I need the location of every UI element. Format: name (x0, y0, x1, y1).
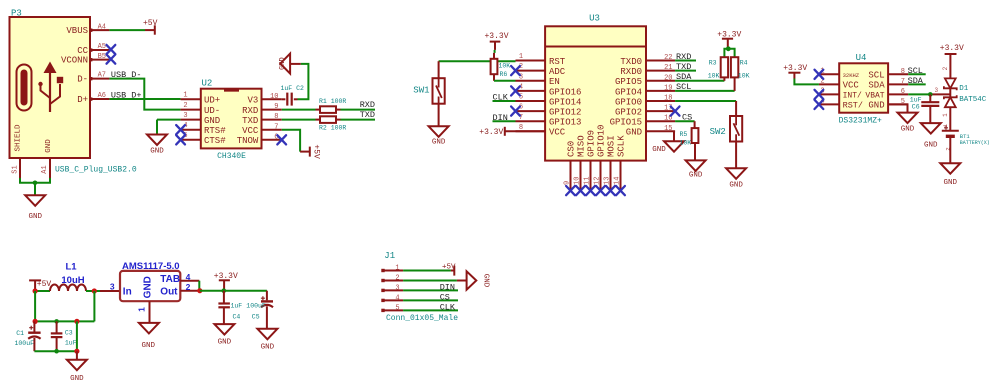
svg-text:22: 22 (664, 54, 672, 62)
svg-text:CS: CS (682, 112, 692, 122)
svg-text:GND: GND (689, 171, 703, 179)
svg-text:RXD: RXD (242, 106, 258, 116)
resistor R4 10K (731, 57, 750, 91)
J1 pin 4 (381, 295, 403, 303)
power +5V (VBUS, rotated) (143, 19, 158, 35)
U4 pin 8 SCL (868, 68, 908, 81)
svg-text:+3.3V: +3.3V (479, 128, 503, 137)
U3 pin 21 RXD0 (620, 64, 675, 77)
wire SCL (U4) (908, 73, 926, 75)
svg-text:GPIO4: GPIO4 (615, 87, 642, 97)
svg-text:GPIO5: GPIO5 (615, 77, 642, 87)
wire U2 GND pin (157, 120, 181, 135)
svg-text:C5: C5 (252, 313, 260, 320)
no-connect X on RTS# (176, 125, 185, 134)
svg-text:BATTERY(X): BATTERY(X) (960, 140, 990, 146)
wire SW2 to ground (735, 142, 737, 169)
wire CS (pin16) (675, 120, 695, 122)
U4 pin 5 GND (868, 98, 908, 111)
ground (P3) (25, 195, 45, 206)
svg-text:4: 4 (395, 295, 399, 303)
power +5V (U2 VCC, rotated) (300, 144, 321, 159)
svg-text:Out: Out (160, 286, 178, 297)
svg-text:TXD0: TXD0 (620, 57, 642, 67)
no-connect X on GPIO2 (671, 107, 680, 116)
no-connect X on VCONN (107, 55, 116, 64)
J1 pin 3 (381, 285, 403, 293)
P3 pin SHIELD S1 (12, 124, 23, 178)
svg-text:1: 1 (136, 307, 146, 312)
U4 pin 6 VBAT (865, 88, 908, 101)
wire VCC to +5V (282, 130, 300, 152)
wire rail to ground (76, 351, 78, 360)
U4 pin 4 RST/ (819, 98, 863, 111)
svg-text:GND: GND (279, 57, 287, 70)
svg-text:GND: GND (261, 344, 275, 352)
U2 pin 9 RXD (242, 103, 282, 116)
svg-text:VBUS: VBUS (66, 26, 88, 36)
svg-text:BAT54C: BAT54C (959, 96, 987, 104)
wire R6 to U3 EN (494, 74, 516, 81)
svg-text:SCL: SCL (868, 71, 884, 81)
wire down to cap rail (34, 291, 36, 321)
wire J1 pin1 to +5V (403, 270, 451, 272)
wire SCL (pin19) (675, 90, 735, 92)
diode D1 BAT54C (944, 78, 987, 107)
U4 pin 1 32KHZ (819, 67, 860, 79)
svg-text:GND: GND (901, 126, 915, 134)
svg-text:GND: GND (652, 146, 666, 154)
svg-text:GPIO10: GPIO10 (597, 125, 607, 157)
svg-text:6: 6 (901, 88, 905, 96)
no-connect X on SCLK (616, 186, 625, 195)
svg-text:1uF: 1uF (65, 340, 77, 347)
svg-text:CS0: CS0 (567, 141, 577, 157)
svg-text:2: 2 (942, 66, 949, 70)
IC U2 CH340E (201, 79, 262, 161)
svg-text:CLK: CLK (440, 302, 456, 312)
svg-text:RST: RST (549, 57, 566, 67)
svg-text:SHIELD: SHIELD (15, 124, 23, 152)
U2 pin 7 VCC (242, 123, 282, 136)
svg-text:+3.3V: +3.3V (783, 64, 807, 73)
switch SW1 (413, 61, 444, 103)
svg-text:RXD0: RXD0 (620, 67, 642, 77)
power +3.3V (regulator out) (214, 272, 238, 291)
svg-text:Conn_01x05_Male: Conn_01x05_Male (386, 314, 458, 323)
no-connect X on CS0 (566, 186, 575, 195)
P3 pin D+ A6 (77, 92, 109, 105)
svg-text:A6: A6 (98, 92, 106, 100)
svg-text:GPIO13: GPIO13 (549, 118, 581, 128)
svg-text:2: 2 (183, 102, 187, 110)
svg-text:RTS#: RTS# (204, 126, 226, 136)
svg-text:1: 1 (395, 265, 399, 273)
svg-text:1uF C2: 1uF C2 (281, 85, 305, 92)
wire L1 to regulator In (86, 290, 120, 292)
svg-text:RST/: RST/ (843, 101, 863, 111)
ground (J1, rotated) (457, 271, 489, 289)
wire R3/R4 tops (724, 49, 734, 57)
junction (726, 46, 731, 51)
wire down to cap rail (right) (93, 291, 95, 321)
svg-text:D-: D- (77, 75, 88, 85)
svg-text:GND: GND (70, 375, 84, 383)
wire SW1 to ground (438, 104, 440, 127)
svg-text:+3.3V: +3.3V (940, 44, 964, 53)
wire J1 pin2 to GND (403, 280, 457, 282)
svg-text:MOSI: MOSI (607, 135, 617, 157)
USB-C receptacle icon (17, 65, 32, 111)
svg-text:GND: GND (150, 148, 164, 156)
svg-text:8: 8 (274, 113, 278, 121)
svg-text:32KHZ: 32KHZ (843, 72, 860, 79)
wire Out rail (200, 290, 267, 292)
svg-text:V3: V3 (247, 96, 258, 106)
svg-text:GPIO9: GPIO9 (587, 130, 597, 157)
ground (U3 pin15) (652, 141, 684, 154)
svg-text:GND: GND (204, 116, 220, 126)
svg-text:7: 7 (274, 123, 278, 131)
svg-text:VCC: VCC (843, 81, 860, 91)
svg-text:7: 7 (901, 78, 905, 86)
wire +5V to L1 (35, 290, 50, 292)
svg-text:GPIO0: GPIO0 (615, 97, 642, 107)
wire VBAT to D1 (908, 87, 950, 95)
wire R5 to ground (694, 143, 696, 160)
svg-text:+3.3V: +3.3V (484, 32, 508, 41)
wire SW1 to U3 RST (439, 60, 516, 62)
svg-text:SW2: SW2 (710, 127, 726, 137)
svg-text:GPIO16: GPIO16 (549, 87, 581, 97)
svg-text:11: 11 (583, 177, 591, 185)
svg-text:TNOW: TNOW (237, 136, 259, 146)
wire DIN (493, 120, 516, 122)
IC U4 DS3231MZ+ (839, 53, 889, 126)
svg-text:R4: R4 (740, 59, 748, 66)
regulator U? AMS1117-5.0 (120, 261, 180, 301)
svg-text:GND: GND (868, 101, 884, 111)
svg-text:GND: GND (481, 274, 489, 288)
svg-text:1: 1 (942, 123, 949, 127)
no-connect X on CC (107, 45, 116, 54)
U3 pin 5 GPIO14 (516, 94, 582, 108)
svg-text:10: 10 (270, 93, 278, 101)
svg-text:TAB: TAB (160, 274, 180, 285)
svg-text:CS: CS (440, 292, 450, 302)
no-connect X on MISO (576, 186, 585, 195)
svg-text:A1: A1 (41, 165, 49, 173)
svg-text:U4: U4 (856, 53, 867, 63)
svg-text:UD+: UD+ (204, 96, 220, 106)
svg-text:J1: J1 (384, 251, 395, 261)
svg-text:GND: GND (626, 128, 642, 138)
svg-text:3: 3 (183, 112, 187, 120)
svg-text:100uF: 100uF (15, 340, 35, 347)
battery BT1 (942, 123, 990, 151)
no-connect X on TNOW (277, 135, 286, 144)
power +3.3V (R3/R4) (717, 30, 741, 48)
cap rail top (34, 320, 94, 322)
svg-text:GND: GND (432, 139, 446, 147)
svg-text:GND: GND (142, 342, 156, 350)
capacitor C1 100uF (15, 321, 41, 351)
U2 pin 5 CTS# (181, 132, 227, 146)
U2 pin 3 GND (181, 112, 221, 126)
wire to R6 (494, 50, 496, 53)
svg-text:TXD: TXD (242, 116, 258, 126)
J1 pin 5 (381, 305, 403, 313)
svg-text:C6: C6 (912, 103, 920, 110)
svg-text:C4: C4 (233, 313, 241, 320)
wire RXD (pin22) (675, 60, 696, 62)
resistor R3 10K (708, 57, 728, 81)
svg-text:10uH: 10uH (61, 275, 84, 286)
U2 pin 10 V3 (247, 93, 281, 106)
svg-text:RXD: RXD (676, 52, 691, 62)
wire RXD (341, 109, 376, 111)
J1 pin 1 (381, 265, 403, 273)
inductor L1 10uH (50, 261, 86, 291)
wire GPIO0 to SW2 (675, 100, 736, 102)
power +3.3V (U4 VCC) (783, 64, 807, 79)
U3 pin 1 RST (516, 53, 566, 67)
junction (197, 288, 202, 293)
connector P3 (USB_C_Plug_USB2.0) (10, 9, 137, 175)
resistor R2 100R (282, 116, 347, 131)
svg-text:10K: 10K (499, 62, 511, 69)
U3 pin 10 MISO (bottom) (573, 135, 586, 190)
U3 pin 15 GND (626, 125, 675, 138)
svg-text:9: 9 (563, 181, 571, 185)
svg-text:SDA: SDA (676, 72, 692, 82)
svg-text:VCONN: VCONN (61, 56, 88, 66)
ground (R5) (686, 160, 706, 171)
U3 pin 8 VCC (516, 124, 566, 138)
junction (C6/VBAT) (928, 92, 933, 97)
svg-text:VBAT: VBAT (865, 92, 884, 101)
ground (BT1) (940, 163, 960, 174)
svg-text:1: 1 (519, 53, 523, 61)
svg-text:8: 8 (901, 68, 905, 76)
svg-text:100uF: 100uF (246, 303, 266, 310)
capacitor C6 1uF (910, 94, 940, 123)
U3 pin 7 GPIO13 (516, 114, 582, 128)
svg-text:12: 12 (593, 177, 601, 185)
svg-text:1: 1 (183, 92, 187, 100)
svg-text:+5V: +5V (442, 263, 456, 271)
AMS1117 pin 2 Out (180, 282, 199, 292)
svg-text:B5: B5 (98, 53, 106, 61)
svg-text:A5: A5 (98, 43, 106, 51)
wire C2 to gnd (298, 64, 309, 99)
wire +3.3V to U4 VCC (794, 79, 819, 85)
svg-text:S1: S1 (12, 165, 20, 173)
ground (C6) (921, 123, 941, 134)
power +5V (J1, rotated) (442, 263, 456, 275)
svg-text:1uF: 1uF (231, 303, 243, 310)
svg-text:USB_C_Plug_USB2.0: USB_C_Plug_USB2.0 (55, 166, 137, 175)
svg-text:20: 20 (664, 74, 672, 82)
svg-text:CC: CC (77, 46, 88, 56)
svg-text:3: 3 (935, 87, 939, 94)
USB trident icon (38, 62, 63, 113)
U2 pin 2 UD- (181, 102, 221, 116)
no-connect X on RST/ (815, 100, 824, 109)
svg-text:CTS#: CTS# (204, 136, 226, 146)
svg-text:ADC: ADC (549, 67, 566, 77)
no-connect X on MOSI (606, 186, 615, 195)
svg-text:14: 14 (613, 177, 621, 185)
ground (C4) (214, 324, 234, 335)
U3 pin 19 GPIO4 (615, 84, 675, 97)
ground (U2) (147, 135, 167, 146)
U3 pin 4 GPIO16 (516, 84, 582, 98)
svg-text:R5: R5 (680, 131, 688, 138)
U3 pin 14 SCLK (bottom) (613, 135, 626, 190)
U3 pin 2 ADC (516, 63, 566, 77)
svg-text:2: 2 (395, 275, 399, 283)
svg-text:A7: A7 (98, 71, 106, 79)
no-connect X on ADC (511, 66, 520, 75)
U4 pin 7 SDA (868, 78, 908, 91)
U3 pin 18 GPIO0 (615, 95, 675, 108)
svg-text:GPIO12: GPIO12 (549, 108, 581, 118)
ground (U4 pin5) (898, 113, 918, 124)
svg-text:GND: GND (218, 339, 232, 347)
svg-text:3: 3 (110, 281, 115, 291)
junction (92, 288, 97, 293)
svg-text:SW1: SW1 (413, 86, 429, 96)
svg-text:TXD: TXD (360, 110, 375, 120)
wire shield/gnd join (20, 178, 50, 183)
P3 pin CC A5 (77, 43, 109, 56)
wire TAB to Out (198, 281, 200, 291)
svg-text:GND: GND (924, 141, 938, 149)
svg-text:MISO: MISO (577, 135, 587, 157)
capacitor C3 1uF (51, 321, 77, 351)
svg-text:L1: L1 (65, 261, 77, 272)
AMS1117 pin 4 TAB (180, 272, 199, 282)
no-connect X on GPIO16 (511, 86, 520, 95)
svg-text:VCC: VCC (549, 128, 566, 138)
svg-text:10: 10 (573, 177, 581, 185)
svg-text:5: 5 (395, 305, 399, 313)
svg-text:UD-: UD- (204, 106, 220, 116)
svg-text:U2: U2 (202, 79, 213, 89)
svg-text:3: 3 (395, 285, 399, 293)
svg-text:GPIO2: GPIO2 (615, 108, 642, 118)
wire J1 pin4 (403, 299, 458, 301)
no-connect X on INT/ (815, 90, 824, 99)
svg-text:CH340E: CH340E (217, 152, 246, 161)
cap rail bottom (34, 350, 77, 352)
P3 pin VCONN B5 (61, 53, 109, 66)
U3 pin 16 GPIO15 (610, 115, 676, 128)
resistor R5 10K (680, 121, 699, 146)
svg-text:10K: 10K (708, 73, 720, 80)
wire SDA (pin20) (675, 80, 724, 82)
U3 pin 22 TXD0 (620, 54, 675, 67)
wire J1 pin3 (403, 289, 458, 291)
U4 pin 3 INT/ (819, 88, 862, 101)
svg-text:+5V: +5V (312, 144, 321, 159)
svg-text:GND: GND (944, 179, 958, 187)
svg-text:9: 9 (274, 103, 278, 111)
resistor R6 10K (491, 53, 511, 78)
connector J1 Conn_01x05_Male (384, 251, 458, 323)
svg-text:10K: 10K (738, 73, 750, 80)
junction (33, 288, 38, 293)
switch SW2 (710, 101, 743, 142)
svg-text:P3: P3 (11, 9, 22, 19)
svg-text:EN: EN (549, 77, 560, 87)
junction (33, 181, 38, 186)
AMS1117 pin 1 GND (136, 301, 149, 323)
J1 pin 2 (381, 275, 403, 283)
wire TXD (341, 119, 376, 121)
U3 pin 13 MOSI (bottom) (603, 135, 616, 190)
ground (C5) (257, 329, 277, 340)
wire battery to ground (949, 136, 951, 163)
svg-text:GND: GND (45, 139, 53, 153)
svg-text:10K: 10K (680, 140, 692, 147)
svg-text:A4: A4 (98, 23, 106, 31)
svg-text:SDA: SDA (868, 81, 885, 91)
svg-text:GND: GND (142, 276, 153, 298)
no-connect X on CTS# (176, 135, 185, 144)
svg-text:D+: D+ (77, 95, 88, 105)
svg-text:RXD: RXD (360, 100, 375, 110)
svg-text:D1: D1 (959, 85, 969, 93)
svg-text:C3: C3 (65, 330, 73, 337)
svg-text:15: 15 (664, 125, 672, 133)
svg-text:GPIO15: GPIO15 (610, 118, 642, 128)
svg-text:+5V: +5V (37, 280, 52, 289)
no-connect X on GPIO10 (596, 186, 605, 195)
no-connect X on GPIO9 (586, 186, 595, 195)
wire U4 GND (888, 104, 907, 112)
ground (input caps) (67, 360, 87, 371)
U3 pin 9 CS0 (bottom) (563, 141, 576, 190)
P3 pin GND A1 (41, 139, 53, 178)
U3 pin 17 GPIO2 (615, 105, 675, 118)
U2 pin 6 TNOW (237, 133, 282, 146)
svg-text:GND: GND (28, 213, 42, 221)
svg-text:21: 21 (664, 64, 672, 72)
wire TXD (pin21) (675, 70, 696, 72)
junction (222, 288, 227, 293)
capacitor C5 100uF (246, 291, 273, 329)
U3 pin 20 GPIO5 (615, 74, 675, 87)
wire U3 GND to ground (673, 131, 675, 141)
ground (SW2) (726, 168, 746, 179)
svg-text:In: In (123, 286, 132, 297)
svg-text:SCLK: SCLK (617, 135, 627, 157)
ground (rotated, C2) (279, 54, 290, 74)
svg-text:4: 4 (186, 272, 191, 282)
power +3.3V (R6) (484, 32, 508, 50)
wire SDA (U4) (908, 83, 926, 85)
U3 pin 11 GPIO9 (bottom) (583, 130, 596, 190)
U3 pin 12 GPIO10 (bottom) (593, 125, 606, 190)
resistor R1 100R (282, 98, 347, 113)
svg-text:SCL: SCL (908, 66, 923, 76)
U2 pin 1 UD+ (181, 92, 221, 106)
power +5V (L1) (29, 280, 51, 291)
wire to ground (34, 183, 36, 196)
no-connect X on 32KHZ (815, 70, 824, 79)
